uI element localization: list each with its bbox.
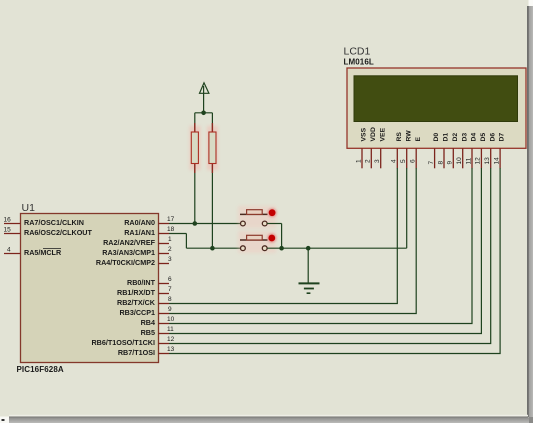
svg-text:RB6/T1OSO/T1CKI: RB6/T1OSO/T1CKI xyxy=(91,338,155,347)
svg-text:11: 11 xyxy=(465,157,472,164)
svg-text:11: 11 xyxy=(167,326,174,333)
svg-text:RB1/RX/DT: RB1/RX/DT xyxy=(117,288,156,297)
svg-text:8: 8 xyxy=(168,296,172,303)
LCD pin 8 stub D1 xyxy=(443,148,445,168)
LCD pin 1 stub VSS xyxy=(361,148,363,168)
svg-text:9: 9 xyxy=(168,306,172,313)
wire SW1 right terminal horizontal xyxy=(267,223,282,225)
pin 15 stub RA6 xyxy=(4,233,21,235)
LCD pin 9 stub D2 xyxy=(452,148,454,168)
svg-text:1: 1 xyxy=(355,159,362,163)
svg-text:D5: D5 xyxy=(480,133,487,142)
MCLR overline xyxy=(43,248,61,250)
microcontroller U1 body xyxy=(21,214,159,363)
svg-text:4: 4 xyxy=(7,247,11,254)
wire power rail horizontal xyxy=(195,112,213,114)
svg-text:D3: D3 xyxy=(461,133,468,142)
pin 18 stub RA1 xyxy=(159,233,170,235)
svg-text:D6: D6 xyxy=(489,133,496,142)
svg-text:12: 12 xyxy=(475,157,482,165)
svg-text:6: 6 xyxy=(410,159,417,163)
svg-text:2: 2 xyxy=(168,246,172,253)
svg-text:12: 12 xyxy=(167,336,175,343)
pin 7 stub RB1 xyxy=(159,293,170,295)
wire RB4 to LCD D4 xyxy=(169,168,472,324)
node junction ground tap xyxy=(306,246,311,251)
wire RA1 net to button SW2 xyxy=(186,247,240,249)
LCD pin 2 stub VDD xyxy=(370,148,372,168)
wire SW1 drop vertical xyxy=(281,224,283,249)
pin 17 stub RA0 xyxy=(159,223,170,225)
node junction R2/RA1 xyxy=(210,246,215,251)
svg-text:10: 10 xyxy=(456,157,463,165)
svg-text:13: 13 xyxy=(484,157,491,165)
svg-text:D7: D7 xyxy=(499,133,506,142)
svg-text:18: 18 xyxy=(167,226,175,233)
pin 4 stub RA5/MCLR xyxy=(4,253,21,255)
pin 3 stub RA4 xyxy=(159,263,170,265)
LCD pin 10 stub D3 xyxy=(462,148,464,168)
node power junction xyxy=(201,111,206,116)
svg-text:8: 8 xyxy=(437,161,444,165)
LCD pin 3 stub VEE xyxy=(380,148,382,168)
svg-text:VEE: VEE xyxy=(379,127,386,141)
svg-text:17: 17 xyxy=(167,216,175,223)
svg-text:RA7/OSC1/CLKIN: RA7/OSC1/CLKIN xyxy=(24,218,84,227)
wire RB5 to LCD D5 xyxy=(169,168,481,334)
LCD pin 11 stub D4 xyxy=(471,148,473,168)
LCD pin 13 stub D6 xyxy=(490,148,492,168)
ground xyxy=(299,248,320,293)
wire RA1 vertical drop xyxy=(185,234,187,249)
svg-text:LM016L: LM016L xyxy=(344,58,374,67)
svg-text:LCD1: LCD1 xyxy=(344,46,371,58)
wire RA0 pin17 to button SW1 xyxy=(169,223,240,225)
svg-text:RB7/T1OSI: RB7/T1OSI xyxy=(118,348,155,357)
svg-text:4: 4 xyxy=(391,159,398,163)
pin 8 stub RB2 xyxy=(159,303,170,305)
push button SW1 xyxy=(238,206,277,228)
svg-text:RA2/AN2/VREF: RA2/AN2/VREF xyxy=(103,238,156,247)
svg-text:3: 3 xyxy=(374,159,381,163)
wire common net to RW riser xyxy=(267,247,407,249)
svg-text:RA5/MCLR: RA5/MCLR xyxy=(24,248,62,257)
svg-text:VSS: VSS xyxy=(361,127,368,141)
svg-text:9: 9 xyxy=(447,161,454,165)
pin 1 stub RA2 xyxy=(159,243,170,245)
wire RB2 to LCD RS xyxy=(169,168,397,304)
svg-text:PIC16F628A: PIC16F628A xyxy=(17,365,64,374)
pin 13 stub RB7 xyxy=(159,353,170,355)
wire R2 bottom to RA1 net xyxy=(211,164,213,249)
LCD screen xyxy=(354,76,518,122)
LCD pin 7 stub D0 xyxy=(434,148,436,168)
LCD display LCD1 body xyxy=(347,68,526,148)
svg-text:RB3/CCP1: RB3/CCP1 xyxy=(119,308,155,317)
svg-text:6: 6 xyxy=(168,276,172,283)
svg-text:D1: D1 xyxy=(443,133,450,142)
svg-text:RB0/INT: RB0/INT xyxy=(127,278,156,287)
wire power to R2 top xyxy=(211,113,213,132)
svg-text:D0: D0 xyxy=(433,133,440,142)
svg-text:D4: D4 xyxy=(471,133,478,142)
svg-text:U1: U1 xyxy=(22,202,36,214)
wire RB7 to LCD D7 xyxy=(169,168,500,354)
pin 11 stub RB5 xyxy=(159,333,170,335)
svg-text:RB2/TX/CK: RB2/TX/CK xyxy=(117,298,156,307)
pin 16 stub RA7 xyxy=(4,223,21,225)
svg-text:RB5: RB5 xyxy=(141,328,155,337)
svg-text:7: 7 xyxy=(428,161,435,165)
svg-text:RA1/AN1: RA1/AN1 xyxy=(124,228,155,237)
svg-text:7: 7 xyxy=(168,286,172,293)
svg-text:1: 1 xyxy=(168,236,172,243)
svg-text:RA0/AN0: RA0/AN0 xyxy=(124,218,155,227)
LCD pin 12 stub D5 xyxy=(480,148,482,168)
pin 12 stub RB6 xyxy=(159,343,170,345)
wire RA1 pin18 horizontal xyxy=(169,233,186,235)
LCD pin 5 stub RW xyxy=(406,148,408,168)
svg-text:15: 15 xyxy=(4,227,12,234)
pin 9 stub RB3 xyxy=(159,313,170,315)
pin 2 stub RA3 xyxy=(159,253,170,255)
wire RB6 to LCD D6 xyxy=(169,168,491,344)
wire RB3 to LCD E xyxy=(169,168,416,314)
svg-text:RA3/AN3/CMP1: RA3/AN3/CMP1 xyxy=(102,248,155,257)
LCD pin 6 stub E xyxy=(415,148,417,168)
svg-text:E: E xyxy=(415,137,422,142)
svg-text:VDD: VDD xyxy=(370,127,377,141)
svg-text:14: 14 xyxy=(493,157,500,165)
node junction SW1/SW2 xyxy=(279,246,284,251)
svg-text:13: 13 xyxy=(167,346,175,353)
svg-text:2: 2 xyxy=(365,159,372,163)
LCD pin 4 stub RS xyxy=(396,148,398,168)
resistor R1 xyxy=(190,123,201,173)
resistor R2 xyxy=(207,123,218,173)
svg-text:3: 3 xyxy=(168,256,172,263)
pin 10 stub RB4 xyxy=(159,323,170,325)
svg-text:RW: RW xyxy=(405,130,412,142)
LCD pin 14 stub D7 xyxy=(499,148,501,168)
svg-text:RS: RS xyxy=(396,132,403,142)
svg-text:RB4: RB4 xyxy=(141,318,155,327)
node junction R1/RA0 xyxy=(193,221,198,226)
svg-text:10: 10 xyxy=(167,316,175,323)
wire R1 bottom to RA0 net xyxy=(194,164,196,224)
wire power to R1 top xyxy=(194,113,196,132)
svg-text:5: 5 xyxy=(400,159,407,163)
svg-text:16: 16 xyxy=(4,217,12,224)
pin 6 stub RB0 xyxy=(159,283,170,285)
power symbol VCC arrow xyxy=(200,83,209,113)
svg-text:RA6/OSC2/CLKOUT: RA6/OSC2/CLKOUT xyxy=(24,228,92,237)
push button SW2 xyxy=(238,231,276,253)
svg-text:RA4/T0CKI/CMP2: RA4/T0CKI/CMP2 xyxy=(96,258,155,267)
wire RW riser vertical xyxy=(406,168,408,248)
svg-text:D2: D2 xyxy=(452,133,459,142)
